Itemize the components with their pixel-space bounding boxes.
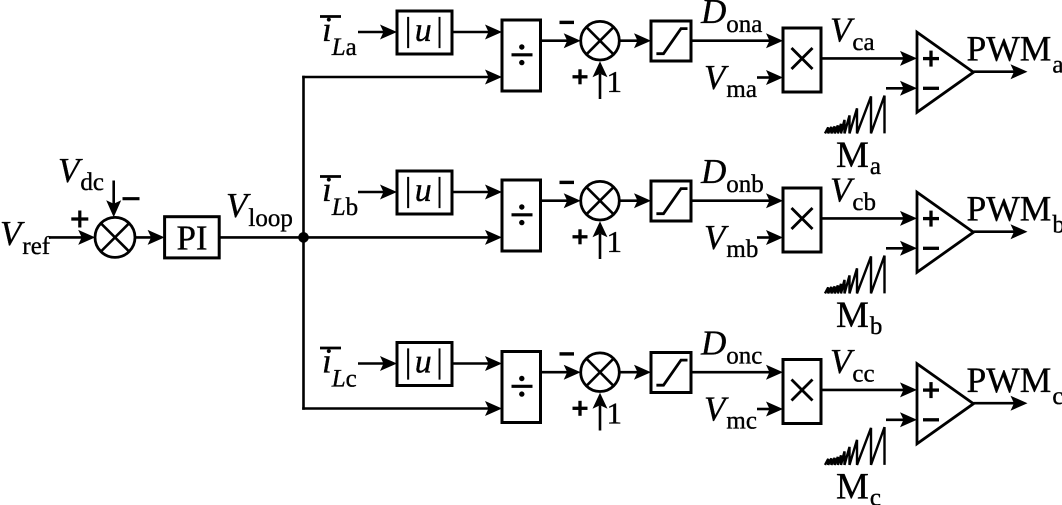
wire saturation to multiplier row b: [691, 193, 783, 208]
wire vertical bus: [302, 76, 305, 410]
multiplier block row b: [783, 188, 821, 252]
wire multiplier to comparator row c: [821, 382, 917, 397]
wire Vmb into multiplier row b: [757, 230, 783, 245]
wire carrier into comparator minus input row b: [886, 241, 917, 256]
saturation block row a: [651, 21, 691, 61]
wire comparator output PWM row c: [974, 396, 1028, 411]
minus sign at summer S1 Vdc input: [123, 197, 140, 200]
svg-text:|u|: |u|: [403, 12, 446, 49]
wire PI output to bus junction: [219, 236, 303, 239]
sawtooth carrier waveform Mc: [825, 427, 885, 465]
abs block |u| row b: [397, 171, 452, 214]
wire bus branch to divider row c: [302, 401, 502, 416]
wire multiplier to comparator row a: [821, 51, 917, 66]
wire Vdc down into summer S1: [106, 181, 121, 218]
wire bus branch to divider row b: [304, 230, 503, 245]
wire bus branch to divider row a: [302, 70, 502, 85]
wire iLa to abs block: [358, 25, 397, 40]
wire divider to summer row a: [541, 33, 581, 48]
divider block row a: [502, 20, 541, 91]
wire divider to summer row b: [541, 193, 581, 208]
sawtooth carrier waveform Ma: [825, 96, 885, 134]
svg-text:|u|: |u|: [403, 344, 446, 381]
wire Vma into multiplier row a: [757, 70, 783, 85]
plus sign inside comparator row a: [923, 51, 939, 67]
wire abs to divider row a: [452, 25, 502, 40]
minus sign inside comparator row b: [923, 247, 939, 250]
junction dot on bus: [298, 232, 309, 243]
wire Vref to summer: [49, 230, 95, 245]
sawtooth carrier waveform Mb: [825, 256, 885, 294]
row a: iLa overbar: [320, 15, 341, 18]
plus sign inside comparator row b: [923, 211, 939, 227]
row c: iLc overbar: [320, 347, 341, 350]
minus sign inside comparator row a: [923, 87, 939, 90]
wire constant 1 up into summer row a: [593, 61, 608, 99]
plus sign at summer bottom input row a: [573, 69, 588, 84]
svg-text:|u|: |u|: [403, 172, 446, 209]
divider block row c: [502, 352, 541, 423]
wire saturation to multiplier row c: [691, 365, 783, 380]
wire carrier into comparator minus input row a: [886, 81, 917, 96]
wire comparator output PWM row b: [974, 224, 1028, 239]
wire constant 1 up into summer row b: [593, 221, 608, 259]
minus sign at summer input row b: [560, 181, 575, 184]
wire iLc to abs block: [358, 356, 397, 371]
wire multiplier to comparator row b: [821, 211, 917, 226]
wire constant 1 up into summer row c: [593, 393, 608, 431]
wire comparator output PWM row a: [974, 64, 1028, 79]
wire carrier into comparator minus input row c: [886, 412, 917, 427]
svg-text:1: 1: [607, 64, 623, 99]
plus sign at summer bottom input row c: [573, 401, 588, 416]
PI controller block: [165, 217, 220, 258]
row b: iLb overbar: [320, 175, 341, 178]
abs block |u| row a: [397, 11, 452, 54]
wire divider to summer row c: [541, 365, 581, 380]
wire saturation to multiplier row a: [691, 33, 783, 48]
wire summer to saturation row a: [619, 33, 651, 48]
wire abs to divider row c: [452, 356, 502, 371]
svg-text:PI: PI: [176, 219, 207, 258]
wire Vmc into multiplier row c: [757, 402, 783, 417]
svg-text:1: 1: [607, 224, 623, 259]
summer S1 (circle with cross): [95, 217, 135, 257]
wire abs to divider row b: [452, 185, 502, 200]
plus sign at summer bottom input row b: [573, 229, 588, 244]
divider block row b: [502, 180, 541, 251]
multiplier block row c: [783, 360, 821, 424]
summer circle with cross row c: [581, 353, 620, 392]
multiplier block row a: [783, 28, 821, 92]
saturation block row c: [651, 353, 691, 393]
abs block |u| row c: [397, 343, 452, 386]
minus sign at summer input row c: [560, 352, 575, 355]
wire summer to saturation row b: [619, 193, 651, 208]
wire summer to saturation row c: [619, 365, 651, 380]
comparator triangle row c: [917, 364, 974, 444]
plus sign at summer S1 input: [71, 211, 88, 228]
summer circle with cross row b: [581, 181, 620, 220]
saturation block row b: [651, 181, 691, 221]
svg-text:1: 1: [607, 396, 623, 431]
wire summer S1 to PI: [135, 230, 165, 245]
summer circle with cross row a: [581, 21, 620, 60]
wire iLb to abs block: [358, 185, 397, 200]
plus sign inside comparator row c: [923, 382, 939, 398]
comparator triangle row b: [917, 192, 974, 272]
minus sign at summer input row a: [560, 21, 575, 24]
comparator triangle row a: [917, 32, 974, 112]
minus sign inside comparator row c: [923, 418, 939, 421]
